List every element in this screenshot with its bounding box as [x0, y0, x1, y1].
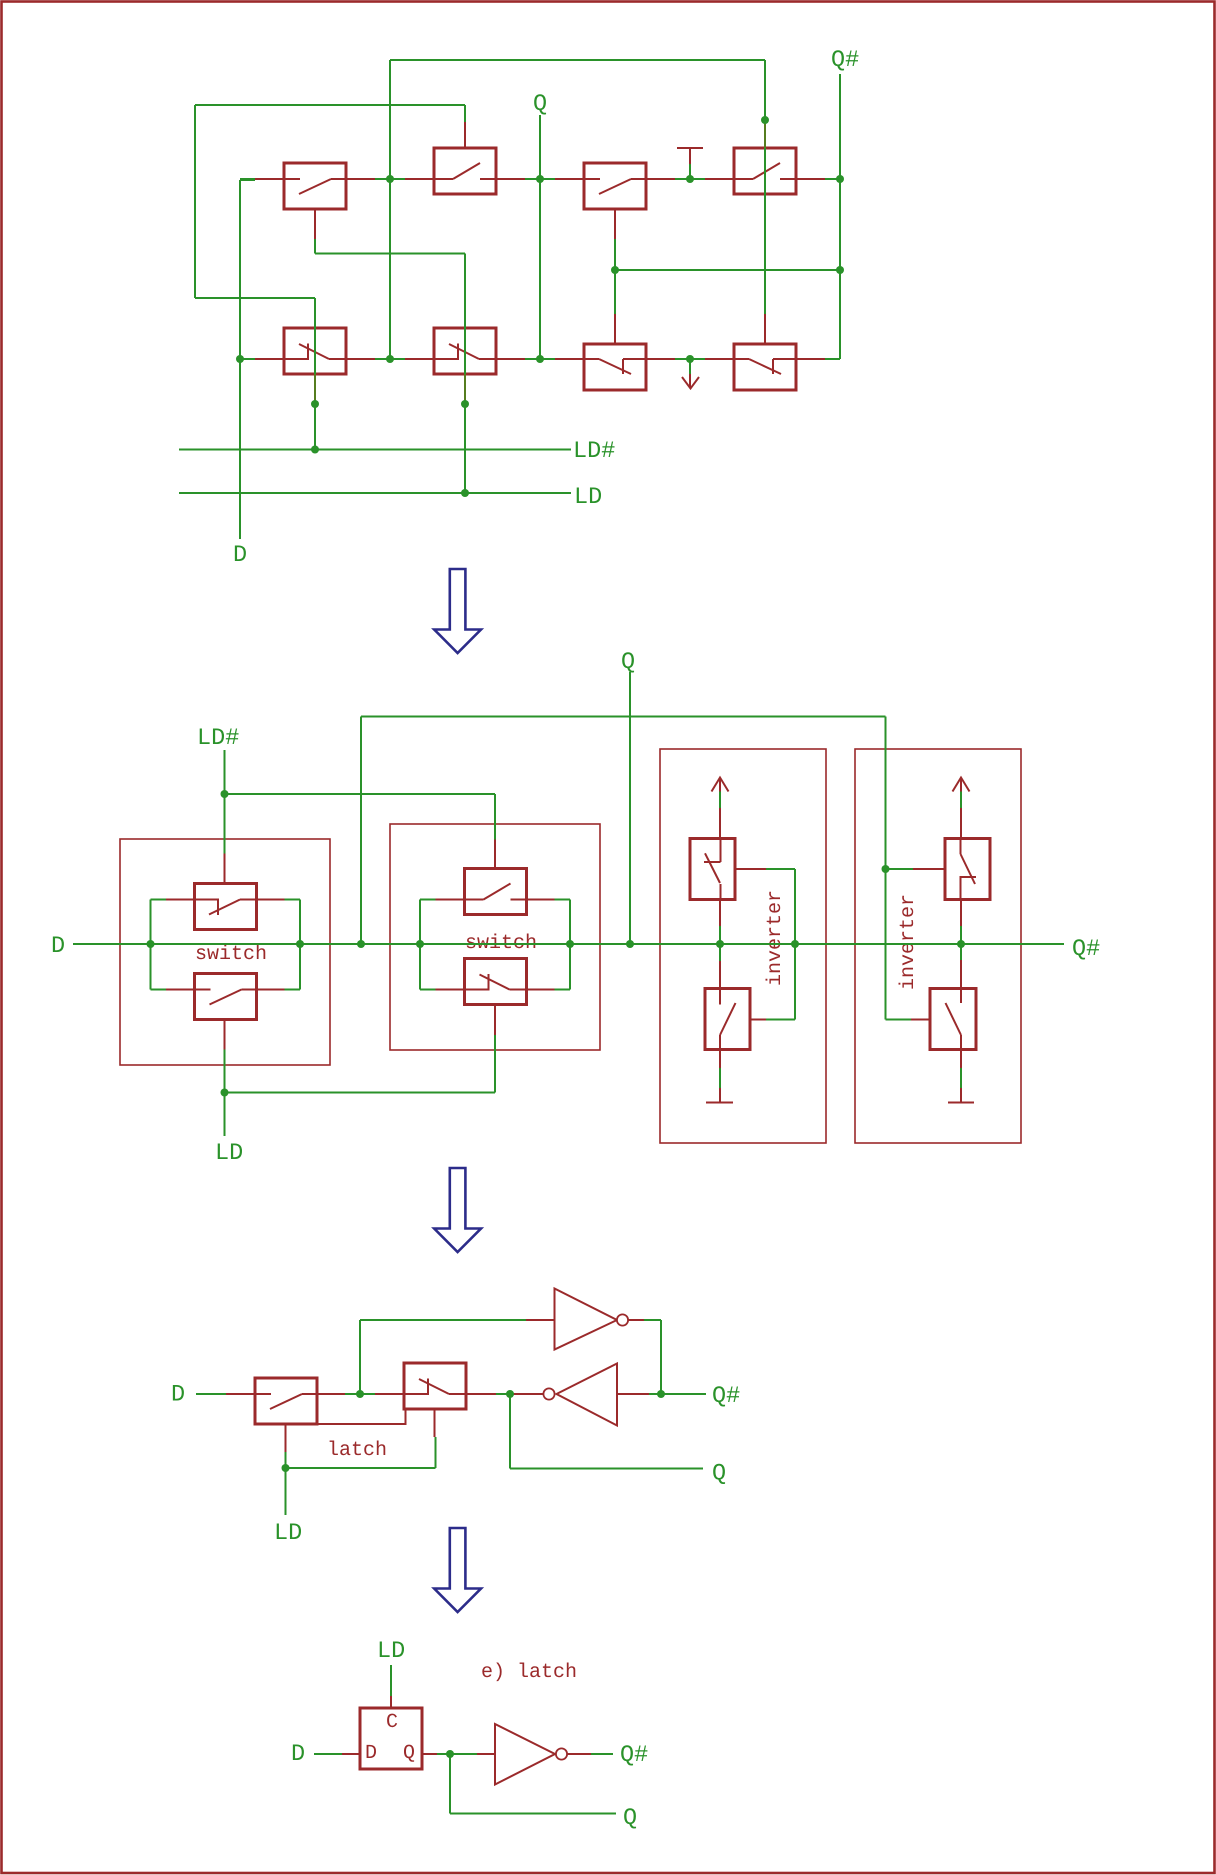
junction rail/switch2 left — [416, 940, 424, 948]
bubble I1 — [617, 1314, 628, 1325]
latch box U1 — [360, 1708, 422, 1769]
transistor switch M3 — [584, 163, 646, 209]
inverter triangle I2 (bottom, points left) — [557, 1364, 618, 1426]
label Q (section 3) — [713, 1464, 725, 1484]
pin label D — [367, 1745, 376, 1758]
junction row2 node A — [386, 355, 394, 363]
label e) latch — [482, 1663, 575, 1682]
label LD# (top) — [576, 442, 615, 457]
wire: node A (S1-S2) — [345, 1320, 526, 1394]
pin: M7 source/drain — [555, 358, 675, 360]
switch group 2 outline — [390, 824, 600, 1050]
transistor: inverter2 NMOS — [930, 989, 976, 1050]
wire: Q vertical — [539, 115, 541, 359]
inverter 1 outline — [660, 749, 826, 1143]
VDD arrow inverter2 — [953, 778, 970, 839]
pin: switch1 arm pins — [166, 900, 285, 990]
pin: U1 clock — [390, 1696, 392, 1708]
pin: M5 source/drain — [255, 358, 375, 360]
wire: row-1 channel net segments — [240, 178, 840, 180]
block arrow 3 — [434, 1528, 481, 1612]
wire: Q node (section 4) — [437, 1754, 616, 1814]
wire: LD net (section 3) — [286, 1437, 436, 1515]
transistor switch M8 — [734, 344, 796, 390]
wire: inverter2 gate loop / feedback — [361, 717, 913, 1020]
label D (top) — [235, 546, 246, 561]
label Q (section 4) — [624, 1808, 636, 1828]
label LD (middle) — [218, 1144, 242, 1159]
transistor switch M4 — [734, 148, 796, 194]
label latch — [330, 1441, 386, 1456]
label Q# (section 3) — [713, 1386, 739, 1406]
label D (middle) — [53, 937, 64, 952]
junction row1 Q# tap — [836, 175, 844, 183]
wire: vertical through M4 to M8 gate — [764, 60, 766, 314]
wire: LD# net routing (M2 gate / M5 gate) — [195, 105, 465, 450]
wire: inverter2 chain mid — [960, 900, 962, 989]
wire: switch1 parallel arms — [151, 900, 301, 990]
pin: M4 gate — [764, 120, 766, 148]
pin: I2 input (right) — [617, 1393, 649, 1395]
pin: M8 source/drain — [705, 358, 825, 360]
inverter triangle I3 — [495, 1724, 555, 1785]
transistor switch M2 — [434, 148, 496, 194]
pin: M3 gate — [614, 209, 616, 239]
switch group 1 outline — [120, 839, 330, 1065]
ground inverter1 — [706, 1050, 733, 1103]
junction rail/inverter1 out — [716, 940, 724, 948]
junction LD branch — [221, 1089, 229, 1097]
pin: I3 input — [477, 1753, 495, 1755]
wire: I1 out to Q# node — [644, 1320, 661, 1394]
label Q# (top) — [832, 50, 858, 70]
pin label Q — [404, 1745, 414, 1762]
junction row2 Q tap — [536, 355, 544, 363]
label Q# (section 4) — [621, 1745, 647, 1765]
junction node A — [356, 1390, 364, 1398]
label inverter (2) — [899, 896, 914, 989]
wire: Q# (section 4) — [591, 1753, 613, 1755]
pin: U1 D — [342, 1753, 360, 1755]
inverter 2 outline — [855, 749, 1021, 1143]
junction rail/switch1 right — [296, 940, 304, 948]
wire: LD# rail — [179, 449, 571, 451]
bubble I3 — [556, 1748, 567, 1759]
label LD# (middle) — [200, 729, 239, 744]
pin: M1 source/drain — [255, 178, 375, 180]
ground inverter2 — [948, 1050, 974, 1103]
ground arrow — [689, 359, 691, 374]
pin: S2 gate — [434, 1409, 436, 1437]
pin: M2 gate — [464, 105, 466, 122]
wire: LD net routing (M1 gate / M6 gate) — [315, 239, 465, 493]
wire: D input (section 4) — [314, 1753, 342, 1755]
junction LD rail — [461, 489, 469, 497]
pin: I1 output — [628, 1319, 644, 1321]
pin: M2 source/drain — [405, 178, 525, 180]
latch group bracket — [316, 1409, 406, 1424]
wire: LD input (section 4) — [390, 1665, 392, 1696]
transistor: inverter2 PMOS — [945, 839, 990, 900]
label LD (section 4) — [380, 1642, 404, 1657]
pin: M5 gate (overlap) — [314, 374, 316, 404]
wire: switch2 parallel arms — [420, 900, 570, 990]
transistor switch S2 — [404, 1363, 466, 1409]
pin: I2 output (bubble) — [513, 1393, 543, 1395]
junction Q# vertical — [836, 266, 844, 274]
junction inverter2 PMOS gate — [882, 865, 890, 873]
junction row1 node A — [386, 175, 394, 183]
wire: Q# routing (M3 gate / M7 gate) — [615, 74, 840, 359]
junction node B — [506, 1390, 514, 1398]
transistor switch M1 — [284, 163, 346, 209]
wire: LD rail — [179, 492, 571, 494]
VDD arrow inverter1 — [712, 778, 729, 839]
label LD (section 3) — [277, 1524, 301, 1539]
wire: D input — [196, 1393, 226, 1395]
wire: LD# branch (middle) — [225, 750, 496, 854]
wire: row-2 channel net segments — [240, 358, 840, 360]
junction row1 VDD tap — [686, 175, 694, 183]
label Q (middle) — [622, 652, 634, 672]
label D (section 3) — [173, 1385, 184, 1400]
junction at M4 gate — [761, 116, 769, 124]
pin: M8 gate — [764, 314, 766, 344]
VDD T symbol — [677, 147, 703, 149]
pin: S2 right — [466, 1393, 496, 1395]
block arrow 1 — [434, 569, 481, 653]
transistor switch M7 — [584, 344, 646, 390]
bubble I2 — [543, 1388, 554, 1399]
junction rail/switch1 left — [147, 940, 155, 948]
pin: switch2 upper gate — [494, 840, 496, 869]
label switch (group 1) — [197, 945, 266, 960]
transistor: switch1 upper — [195, 884, 257, 930]
pin: M7 gate — [614, 314, 616, 344]
transistor: switch1 lower — [195, 974, 257, 1020]
transistor: switch2 lower — [465, 959, 527, 1005]
pin: M1 gate — [314, 209, 316, 239]
pin: S1 left — [226, 1393, 255, 1395]
wire: inverter1 gate loop — [766, 869, 795, 1020]
pin: S1 gate — [285, 1424, 287, 1452]
transistor switch M5 — [284, 328, 346, 374]
junction Q (section 4) — [446, 1750, 454, 1758]
pin: switch2 arm pins — [436, 900, 555, 990]
label switch (group 2) — [467, 934, 536, 949]
junction M3-M7 gate tap — [611, 266, 619, 274]
junction Q# node (section 3) — [657, 1390, 665, 1398]
inverter triangle I1 (top) — [555, 1289, 618, 1350]
pin: U1 Q — [422, 1753, 437, 1755]
transistor: switch2 upper — [465, 869, 527, 915]
block arrow 2 — [434, 1168, 481, 1252]
pin: switch2 lower gate — [494, 1005, 496, 1036]
label inverter (1) — [766, 892, 781, 985]
junction LD (section 3) — [282, 1464, 290, 1472]
junction LD# branch — [221, 790, 229, 798]
pin: S1 right / S2 left — [316, 1393, 404, 1395]
wire: inverter1 chain mid — [719, 899, 721, 989]
junction row1 Q tap — [536, 175, 544, 183]
wire: node B / Q — [496, 1394, 706, 1469]
pin: I1 input — [526, 1319, 555, 1321]
pin: switch1 lower gate — [224, 1020, 226, 1050]
junction row2 ground tap — [686, 355, 694, 363]
pin: M6 gate (overlap) — [464, 374, 466, 404]
junction M6 gate / LD column — [461, 400, 469, 408]
pin label C — [387, 1714, 397, 1728]
junction rail/inverter2 out — [957, 940, 965, 948]
wire: M1/M2 gate-routing net (top loop to M4/M8 gates) — [390, 60, 765, 359]
wire: main rail D->Q# (middle) — [73, 943, 1064, 945]
transistor switch M6 — [434, 328, 496, 374]
wire: Q vertical (middle) — [629, 672, 631, 944]
junction M5 gate / LD# column — [311, 400, 319, 408]
transistor: inverter1 PMOS — [690, 839, 735, 900]
label LD (top) — [577, 488, 601, 503]
label D (section 4) — [293, 1745, 304, 1760]
transistor switch S1 — [255, 1378, 317, 1424]
label Q (top) — [534, 94, 546, 114]
label Q# (middle) — [1073, 939, 1099, 959]
pin: inverter1 gates — [735, 869, 766, 1020]
junction rail/Q tap — [626, 940, 634, 948]
junction LD# rail — [311, 446, 319, 454]
junction rail/feedback — [357, 940, 365, 948]
junction rail/inverter1 gate loop — [791, 940, 799, 948]
pin: M3 source/drain — [555, 178, 675, 180]
transistor: inverter1 NMOS — [705, 989, 750, 1050]
junction D / M5 source — [236, 355, 244, 363]
pin: M6 source/drain — [405, 358, 525, 360]
junction rail/switch2 right — [566, 940, 574, 948]
wire: LD branch (middle) — [225, 1035, 496, 1136]
pin: M4 source/drain — [705, 178, 825, 180]
pin: I3 output — [567, 1753, 591, 1755]
pin: inverter2 gates — [911, 869, 945, 1020]
wire: D net — [240, 180, 255, 539]
pin: switch1 upper gate — [224, 854, 226, 884]
